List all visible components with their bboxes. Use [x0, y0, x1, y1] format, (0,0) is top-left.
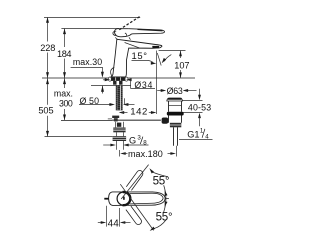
svg-text:44: 44: [108, 218, 120, 229]
svg-text:505: 505: [38, 106, 53, 116]
svg-text:max.180: max.180: [128, 149, 163, 159]
svg-text:55°: 55°: [153, 174, 170, 187]
svg-text:G1: G1: [187, 129, 199, 139]
svg-text:max.: max.: [54, 89, 73, 99]
svg-text:300: 300: [59, 98, 73, 108]
svg-text:3: 3: [137, 134, 141, 141]
svg-text:4: 4: [205, 133, 209, 140]
svg-text:Ø34: Ø34: [134, 80, 152, 90]
svg-text:184: 184: [57, 49, 72, 59]
svg-text:55°: 55°: [156, 211, 173, 224]
svg-text:8: 8: [143, 140, 147, 147]
svg-text:G: G: [129, 135, 136, 145]
svg-text:Ø63: Ø63: [167, 86, 183, 96]
svg-text:15°: 15°: [132, 50, 148, 61]
svg-text:107: 107: [174, 61, 189, 71]
svg-text:40-53: 40-53: [188, 103, 211, 113]
svg-text:228: 228: [40, 43, 55, 53]
svg-text:142: 142: [130, 106, 147, 117]
svg-text:Ø 50: Ø 50: [80, 96, 100, 106]
svg-text:max.30: max.30: [73, 57, 102, 67]
